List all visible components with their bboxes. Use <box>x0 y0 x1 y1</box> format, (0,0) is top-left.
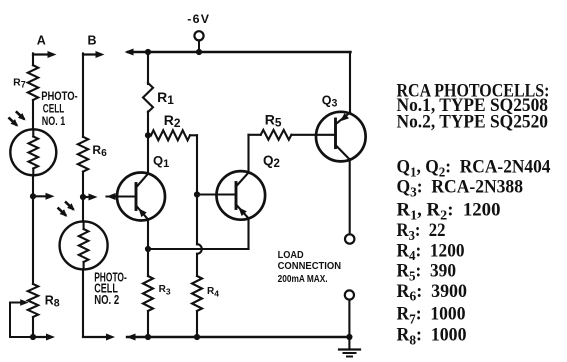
svg-text:R4: R4 <box>207 286 219 298</box>
svg-text:B: B <box>88 33 97 47</box>
svg-text:R5: 390: R5: 390 <box>397 262 457 285</box>
svg-text:R6: 3900: R6: 3900 <box>397 282 468 305</box>
svg-text:NO. 1: NO. 1 <box>42 114 66 128</box>
svg-text:LOAD: LOAD <box>278 250 304 261</box>
svg-text:200mA MAX.: 200mA MAX. <box>278 274 328 285</box>
svg-text:R7: 1000: R7: 1000 <box>397 305 466 328</box>
svg-text:R3: R3 <box>159 284 171 296</box>
svg-text:R8: 1000: R8: 1000 <box>397 326 467 349</box>
svg-text:CONNECTION: CONNECTION <box>278 261 342 272</box>
svg-text:-6V: -6V <box>187 12 210 26</box>
svg-text:No.2, TYPE SQ2520: No.2, TYPE SQ2520 <box>397 113 549 133</box>
svg-text:NO. 2: NO. 2 <box>94 293 119 307</box>
svg-text:A: A <box>37 33 46 47</box>
